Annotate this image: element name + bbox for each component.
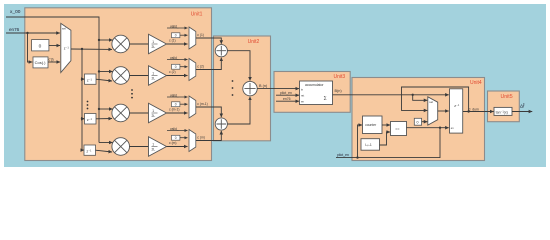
row 2 constant box 0 — [172, 64, 180, 69]
svg-text:tan⁻¹(x): tan⁻¹(x) — [496, 111, 508, 115]
wire mux M0 output to multiplier X1 — [71, 48, 112, 50]
svg-text:sel: sel — [62, 27, 66, 31]
stub to delay Z2 — [81, 118, 85, 120]
wire A3 to A2 — [227, 97, 250, 124]
svg-text:c (m): c (m) — [197, 135, 205, 139]
svg-text:B (n): B (n) — [259, 84, 268, 88]
svg-text:c (1): c (1) — [169, 39, 176, 43]
delay Z2 — [85, 114, 97, 125]
dots between delays — [87, 101, 89, 110]
mux M5 — [428, 97, 438, 125]
svg-text:c (m-1): c (m-1) — [169, 108, 179, 112]
mux M3 — [189, 96, 196, 118]
svg-text:Unit3: Unit3 — [334, 74, 346, 80]
mux M4 — [189, 130, 196, 152]
wire K2 to mux M0 with label c'(i) — [48, 57, 60, 62]
wire counter to comparator — [382, 124, 390, 126]
svg-text:rst: rst — [301, 93, 304, 97]
mux M1 — [189, 27, 196, 49]
wire Lp-1 to comparator — [380, 132, 391, 145]
wires multipliers to gain triangles — [130, 44, 149, 147]
svg-text:1: 1 — [152, 109, 154, 113]
wire en76 to mux M0 sel — [6, 32, 60, 34]
svg-text:z⁻¹: z⁻¹ — [86, 149, 92, 153]
wire Z2 to multiplier X3 — [96, 118, 112, 120]
Unit4 panel — [352, 78, 485, 161]
svg-text:0: 0 — [175, 34, 177, 38]
wire mux M5 to register R1 — [438, 110, 449, 112]
svg-text:c (m-1): c (m-1) — [197, 102, 207, 106]
dots between X2 and X3 — [131, 89, 133, 98]
accumulator block — [300, 81, 333, 105]
Unit5 panel — [488, 91, 520, 122]
svg-text:0: 0 — [417, 121, 419, 125]
svg-text:en76: en76 — [283, 97, 291, 101]
Unit1 panel — [25, 8, 212, 161]
svg-text:0: 0 — [175, 103, 177, 107]
wire constant 0 to mux M5 — [422, 121, 428, 123]
arctan block tan-1(x) — [494, 107, 512, 115]
constant Lp-1 block — [361, 139, 380, 151]
wire row 4 gain to mux M4 with label c (m) — [167, 141, 188, 147]
wire accumulator output B(n) to register R1 — [333, 89, 449, 95]
dots in Unit2 adder column — [232, 80, 234, 96]
row 3 valid stub — [167, 93, 188, 97]
multiplier X4 — [112, 138, 130, 156]
wire row 3 gain to mux M3 with label c (m-1) — [167, 108, 188, 114]
svg-text:z⁻¹: z⁻¹ — [64, 47, 70, 51]
wire pilot_en into accumulator rst — [276, 91, 299, 95]
svg-text:Unit4: Unit4 — [470, 80, 482, 86]
svg-text:2L: 2L — [152, 45, 156, 49]
svg-text:c (2): c (2) — [197, 64, 204, 68]
svg-text:0: 0 — [39, 44, 42, 50]
svg-text:2L: 2L — [152, 77, 156, 81]
Unit3 panel — [274, 72, 350, 113]
svg-text:en: en — [301, 99, 305, 103]
svg-text:==: == — [395, 127, 399, 131]
wire c (1) output of mux M1 to adder — [196, 33, 222, 44]
multiplier X3 — [112, 104, 130, 122]
row 4 valid stub — [167, 127, 188, 131]
row 3 constant box 0 — [172, 102, 180, 107]
svg-text:z⁻¹: z⁻¹ — [454, 104, 460, 108]
wire A2 output B (n) to accumulator — [257, 84, 299, 89]
counter block — [363, 116, 383, 134]
svg-text:0: 0 — [175, 65, 177, 69]
wire A1 to A2 — [227, 51, 250, 81]
wire x_00 input top rail, bus B1 — [6, 17, 99, 143]
bus B2 vertical to delay chain — [82, 49, 84, 150]
wire row 1 gain to mux M1 with label c (1) — [167, 39, 188, 45]
svg-text:B(n): B(n) — [335, 89, 343, 93]
svg-text:x_00: x_00 — [10, 9, 21, 15]
svg-text:c (1): c (1) — [197, 33, 204, 37]
wire en76 into accumulator en — [276, 97, 299, 101]
bus B1 taps to multiplier upper inputs — [98, 39, 113, 143]
svg-text:c'(i): c'(i) — [49, 57, 54, 61]
feedback wire register output to mux M5 — [402, 87, 470, 113]
adder A3 — [215, 118, 227, 130]
svg-text:Δf̂: Δf̂ — [520, 103, 525, 109]
wire en76 branch to Cos input — [26, 32, 32, 62]
svg-text:pilot_en: pilot_en — [280, 91, 292, 95]
svg-text:z⁻¹: z⁻¹ — [87, 118, 93, 122]
svg-text:counter: counter — [365, 123, 377, 127]
svg-text:Lₚ-1: Lₚ-1 — [365, 143, 371, 147]
svg-text:Unit5: Unit5 — [501, 94, 513, 100]
multiplier X2 — [112, 67, 130, 85]
svg-text:d_dum: d_dum — [469, 107, 480, 111]
constant box K2 Cos() — [33, 57, 48, 68]
gain G4 — [149, 137, 167, 157]
wire output estimate Delta f — [512, 103, 532, 112]
svg-text:0: 0 — [175, 136, 177, 140]
wire c (2) output of mux M2 to adder — [196, 58, 222, 70]
row 1 valid stub — [167, 24, 188, 28]
delay Z1 — [85, 74, 97, 84]
stub to delay Z1 — [81, 78, 85, 80]
wire K1 to mux M0 — [49, 45, 60, 47]
svg-text:pilot_en: pilot_en — [337, 153, 349, 157]
wire comparator to register en — [407, 127, 449, 129]
gain G2 — [149, 66, 167, 86]
svg-text:2L: 2L — [152, 114, 156, 118]
wire c (m-1) output of mux M3 to adder — [196, 102, 222, 117]
svg-text:z⁻¹: z⁻¹ — [87, 78, 93, 82]
mux M2 — [189, 59, 196, 81]
row 1 constant box 0 — [172, 33, 180, 38]
svg-text:Cos(.): Cos(.) — [35, 60, 47, 65]
svg-text:Unit2: Unit2 — [248, 39, 260, 45]
mux M0 — [61, 23, 71, 72]
svg-text:en76: en76 — [9, 27, 20, 32]
register R1 — [450, 89, 463, 133]
node x_00 input label — [10, 9, 21, 15]
svg-text:1: 1 — [152, 142, 154, 146]
constant box K1 value 0 — [32, 40, 49, 51]
wire row 1 constant to mux M1 — [180, 34, 188, 36]
wire c (m) output of mux M4 to adder — [196, 131, 222, 141]
svg-text:∑: ∑ — [324, 95, 327, 100]
background blue panel — [4, 4, 546, 167]
svg-text:2L: 2L — [152, 148, 156, 152]
svg-text:c (m): c (m) — [169, 141, 177, 145]
gain G3 — [149, 103, 167, 123]
wire row 3 constant to mux M3 — [180, 103, 188, 105]
constant 0 box in Unit4 — [414, 118, 421, 125]
wire row 4 constant to mux M4 — [180, 137, 188, 139]
wire row 2 gain to mux M2 with label c (2) — [167, 70, 188, 76]
svg-text:accumulator: accumulator — [305, 83, 324, 87]
adder A2 — [243, 81, 257, 95]
row 2 valid stub — [167, 56, 188, 60]
svg-text:c (2): c (2) — [169, 70, 176, 74]
multiplier X1 — [112, 35, 130, 53]
adder A1 — [215, 45, 227, 57]
wire row 2 constant to mux M2 — [180, 66, 188, 68]
wire Z1 to multiplier X2 — [96, 79, 112, 81]
wire B(n) branch to mux M5 sel — [412, 94, 428, 101]
svg-text:sel: sel — [429, 100, 433, 104]
gain G1 — [149, 34, 167, 54]
Unit2 panel — [214, 36, 271, 141]
row 4 constant box 0 — [172, 135, 180, 140]
wire pilot_en bottom rail into Unit4 — [336, 125, 441, 159]
wire register output d_dum to arctan — [463, 107, 494, 111]
comparator == block — [391, 122, 407, 136]
svg-text:Unit1: Unit1 — [191, 12, 203, 18]
delay Z3 — [84, 145, 96, 155]
node en76 input label — [9, 27, 20, 32]
svg-text:1: 1 — [152, 71, 154, 75]
junction bus B2 — [81, 48, 83, 50]
wire Z3 to multiplier X4 — [96, 150, 113, 152]
svg-text:1: 1 — [152, 40, 154, 44]
